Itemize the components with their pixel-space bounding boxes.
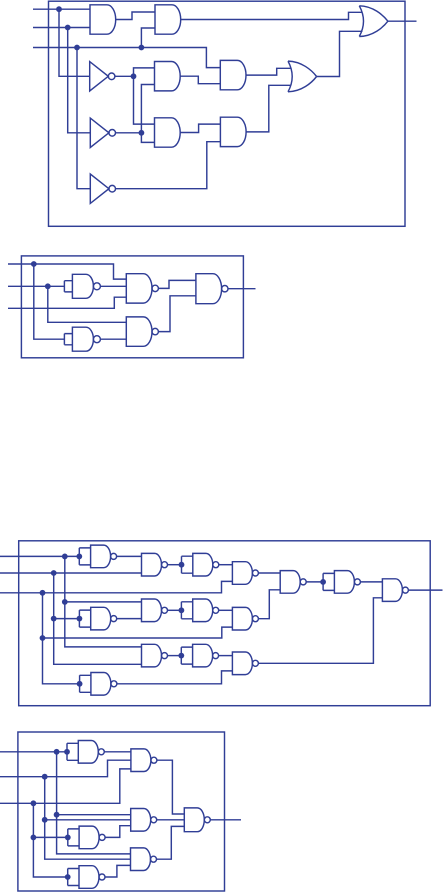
NAND gate I1 (circuit 3) <box>232 562 252 585</box>
junction dot X1 (circuit 2) <box>31 261 37 267</box>
wire G2 output to H2 bar <box>168 609 182 611</box>
NAND gate A (inverter, circuit 2) <box>72 274 93 298</box>
junction dot at M2 bar <box>65 835 71 841</box>
junction dot node A <box>131 73 137 79</box>
wire A output to NAND B middle input <box>100 285 126 287</box>
junction dot at H1 bar <box>179 562 185 568</box>
NAND gate J (circuit 3) <box>280 571 300 594</box>
wire G3 output to AND G5 lower input <box>180 76 220 84</box>
junction dot X3 (circuit 4) <box>31 800 37 806</box>
circuit 3 bounding box <box>19 541 431 706</box>
AND gate G6 (circuit 1) <box>220 117 246 146</box>
junction dot X2 (circuit 1) <box>65 25 71 31</box>
input wire X3 (circuit 1) <box>33 48 220 68</box>
wire G4 output to AND G6 upper input <box>180 124 220 132</box>
inverter U1 (circuit 1) <box>90 62 109 91</box>
AND gate G5 (circuit 1) <box>220 60 246 89</box>
junction dot X3 branch to I2 <box>40 635 46 641</box>
NAND gate F4 input bar <box>80 675 91 692</box>
junction dot node B <box>139 130 145 136</box>
wire X3 branch to NAND I2 lower input <box>43 627 233 638</box>
wire F1 output to NAND G1 upper input <box>117 555 142 557</box>
NAND gate P (3-input, circuit 4) <box>184 808 204 832</box>
NAND gate M2 input bar <box>68 829 79 846</box>
wire B output to NAND E upper input <box>159 280 196 288</box>
NAND gate N2 (3-input, circuit 4) <box>131 809 151 832</box>
wire N2 output to NAND P middle input <box>157 819 185 821</box>
junction dot X1-a (circuit 3) <box>62 554 68 560</box>
wire H3 output to NAND I3 upper input <box>219 655 233 657</box>
wire M1 output to NAND N1 top input <box>104 751 131 753</box>
wire X3 branch to NAND M2 input <box>33 836 67 838</box>
wire G1 output to G2 upper input <box>116 12 155 20</box>
input wire X3 (circuit 4) <box>0 769 131 803</box>
wire X3 to AND G2 lower input <box>141 28 155 48</box>
NAND gate C (circuit 2) <box>126 317 152 346</box>
junction dot X2 (circuit 2) <box>45 283 51 289</box>
wire F2 output to NAND G2 lower input <box>117 618 142 620</box>
junction dot X1 (circuit 1) <box>56 6 62 12</box>
NAND gate L (circuit 3) <box>382 579 402 602</box>
NAND gate M3 input bar <box>68 869 79 886</box>
input wire X2 (circuit 1) <box>33 27 90 29</box>
junction dot at H3 bar <box>178 653 184 659</box>
junction dot X3 branch to M2 <box>31 835 37 841</box>
NAND gate F2 (inverter, circuit 3) <box>91 607 111 630</box>
wire H1 output to NAND I1 upper input <box>219 564 233 566</box>
junction dot X1-b at F1 bar <box>76 554 82 560</box>
NAND gate G3 (circuit 3) <box>142 644 162 667</box>
junction dot at F4 bar <box>77 681 83 687</box>
NAND gate N3 (3-input, circuit 4) <box>131 848 151 871</box>
AND gate G1 (circuit 1) <box>90 5 116 34</box>
wire X1 down to inverter U1 input <box>59 9 90 76</box>
wire node A to AND G4 upper input <box>134 76 155 124</box>
NAND gate F1 (inverter, circuit 3) <box>91 545 111 568</box>
circuit 2 bounding box <box>21 256 243 358</box>
junction dot X1 branch to G2 <box>62 599 68 605</box>
output wire F (circuit 3) <box>408 589 442 591</box>
wire I2 output to NAND J lower input <box>258 590 280 619</box>
input wire X1 (circuit 2) <box>8 264 126 279</box>
NAND gate K (inverter, circuit 3) <box>334 571 354 594</box>
input wire X1 (circuit 3) <box>0 555 79 557</box>
inverter U2 (circuit 1) <box>90 118 109 147</box>
wire X1 branch to NAND N2 top input <box>57 814 131 816</box>
input wire X2 (circuit 4) <box>0 760 131 777</box>
NAND gate M1 input bar <box>67 743 78 760</box>
junction dot X1 branch to N2 <box>54 812 60 818</box>
NAND gate H2 input bar <box>181 602 192 619</box>
OR gate G8 (circuit 1) <box>359 6 388 37</box>
AND gate G2 (circuit 1) <box>155 5 181 34</box>
input wire X3 (circuit 3) <box>0 581 232 592</box>
NAND gate E (circuit 2) <box>196 274 222 304</box>
OR gate G7 (circuit 1) <box>288 61 317 92</box>
wire X2 down branch <box>54 573 142 664</box>
wire X1 down to NAND D input <box>34 264 65 339</box>
junction dot X3-a (circuit 1) <box>74 45 80 51</box>
wire G2 output to OR G8 upper input <box>181 12 363 19</box>
junction dot at H2 bar <box>179 607 185 613</box>
NAND gate G1 (circuit 3) <box>142 553 162 576</box>
wire X2 branch to NAND N2 middle input <box>45 819 131 821</box>
wire U2 output to node B <box>115 132 141 134</box>
AND gate G3 (circuit 1) <box>155 62 181 91</box>
wire M3 output to NAND N3 bottom input <box>105 865 131 877</box>
wire node A to AND G3 upper input <box>134 68 155 76</box>
input wire X2 (circuit 3) <box>0 572 142 574</box>
wire G6 output to OR G7 lower input <box>246 85 291 132</box>
NAND gate K input bar <box>323 573 334 590</box>
wire X1 down branch <box>57 752 131 854</box>
output wire F (circuit 1) <box>388 20 417 22</box>
NAND gate M2 (inverter, circuit 4) <box>79 826 99 849</box>
junction dot X3-b (circuit 1) <box>139 45 145 51</box>
wire U3 output to AND G6 lower input <box>115 142 220 189</box>
input wire X1 (circuit 1) <box>33 8 90 10</box>
AND gate G4 (circuit 1) <box>155 118 181 147</box>
wire I1 output to NAND J upper input <box>258 572 280 574</box>
wire X2 down to NAND C upper input <box>48 286 127 322</box>
input wire X2 (circuit 2) <box>8 285 64 287</box>
circuit 1 bounding box <box>49 1 406 226</box>
wire J output to K bar <box>306 581 323 583</box>
wire K output to NAND L upper input <box>360 581 382 583</box>
NAND gate H2 (inverter, circuit 3) <box>193 599 213 622</box>
wire G3 output to H3 bar <box>168 655 182 657</box>
wire I3 output to NAND L lower input <box>258 598 382 664</box>
output wire F (circuit 4) <box>210 819 241 821</box>
junction dot at M3 bar <box>65 874 71 880</box>
input wire X3 (circuit 2) <box>8 297 126 308</box>
NAND gate N1 (3-input, circuit 4) <box>131 749 151 772</box>
inverter U3 (circuit 1) <box>90 174 109 203</box>
wire C output to NAND E lower input <box>159 296 196 332</box>
wire G1 output to H1 bar <box>168 564 182 566</box>
NAND gate G2 (circuit 3) <box>142 599 162 622</box>
wire X3 down to inverter U3 input <box>77 48 90 189</box>
wire H2 output to NAND I2 upper input <box>219 609 233 611</box>
junction dot at F2 bar <box>77 616 83 622</box>
wire M2 output to NAND N2 bottom input <box>105 826 131 838</box>
junction dot X1-a (circuit 4) <box>54 749 60 755</box>
NAND gate F1 input bar <box>79 548 90 565</box>
NAND gate A input bar <box>64 281 72 292</box>
wire node B to AND G4 lower input <box>141 133 154 143</box>
wire X3 down branch <box>33 803 67 877</box>
wire F4 output to NAND I3 lower input <box>117 671 232 684</box>
junction dot X2 (circuit 4) <box>42 774 48 780</box>
junction dot X2 (circuit 3) <box>51 570 57 576</box>
junction dot X2 branch to F2 <box>51 616 57 622</box>
NAND gate H3 input bar <box>181 647 192 664</box>
NAND gate D input bar <box>64 334 72 345</box>
wire X3 down branch <box>43 593 80 684</box>
junction dot X2 branch to N2 <box>42 817 48 823</box>
wire G7 output to OR G8 lower input <box>317 31 363 76</box>
input wire X1 (circuit 4) <box>0 751 67 753</box>
NAND gate M1 (inverter, circuit 4) <box>78 741 98 764</box>
NAND gate H1 (inverter, circuit 3) <box>193 553 213 576</box>
wire X1 branch to NAND G2 upper input <box>65 601 142 603</box>
junction dot at K bar <box>320 579 326 585</box>
wire N1 output to NAND P top input <box>157 760 184 814</box>
wire N3 output to NAND P bottom input <box>157 826 185 859</box>
wire X2 down branch <box>45 777 131 860</box>
wire X2 down to inverter U2 input <box>68 28 91 133</box>
wire X2 branch to NAND F2 input <box>54 618 80 620</box>
wire X1 down branch <box>65 556 142 647</box>
junction dot X3 (circuit 3) <box>40 590 46 596</box>
wire node B to AND G3 lower input <box>141 85 154 133</box>
NAND gate I2 (circuit 3) <box>232 607 252 630</box>
NAND gate F2 input bar <box>79 610 90 627</box>
NAND gate H3 (inverter, circuit 3) <box>193 644 213 667</box>
NAND gate F4 (inverter, circuit 3) <box>91 673 111 696</box>
NAND gate I3 (circuit 3) <box>232 652 252 675</box>
wire D output to NAND C lower input <box>100 338 126 340</box>
NAND gate H1 input bar <box>182 556 193 573</box>
circuit 4 bounding box <box>18 732 225 891</box>
output wire F (circuit 2) <box>228 288 255 290</box>
wire U1 output to node A <box>115 75 134 77</box>
NAND gate B (3-input, circuit 2) <box>126 274 152 303</box>
wire G5 output to OR G7 upper input <box>246 68 291 75</box>
NAND gate D (inverter, circuit 2) <box>72 327 93 351</box>
junction dot X1-b at M1 bar <box>64 749 70 755</box>
NAND gate M3 (inverter, circuit 4) <box>79 866 99 889</box>
